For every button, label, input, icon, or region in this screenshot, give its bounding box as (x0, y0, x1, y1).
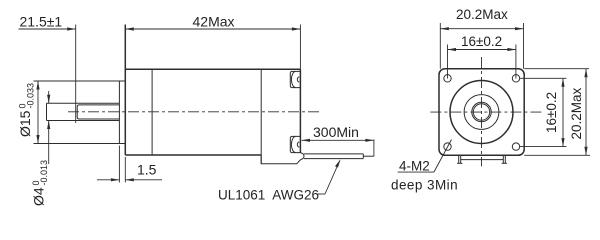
dimension 20.2Max right (vertical) (524, 69, 590, 156)
shaft circle outer (472, 102, 491, 121)
svg-text:Ø4: Ø4 (31, 187, 47, 206)
flange front face (124, 25, 126, 156)
rear cap seam (260, 69, 262, 164)
pilot circle (450, 81, 513, 144)
label UL1061 AWG26 with leader (218, 159, 341, 202)
dimension 300Min (302, 124, 374, 156)
svg-text:deep 3Min: deep 3Min (391, 177, 458, 192)
shaft circle inner (473, 104, 489, 120)
boss circle (464, 95, 499, 130)
svg-text:4-M2: 4-M2 (399, 158, 430, 173)
dimension 20.2Max top (440, 7, 523, 69)
flange square (439, 69, 524, 156)
svg-text:16±0.2: 16±0.2 (461, 34, 502, 49)
pilot boss top edge + dim ext (34, 80, 126, 82)
rear cap bottom bulge (261, 155, 301, 164)
svg-text:20.2Max: 20.2Max (456, 7, 508, 22)
svg-text:300Min: 300Min (313, 124, 359, 140)
label 4-M2 deep 3Min with leader (391, 140, 458, 193)
wire exit bump (300, 153, 304, 160)
mounting hole top-right (512, 75, 519, 82)
rear screw detail top (290, 71, 300, 87)
pilot boss front face (118, 81, 120, 144)
dimension 16±0.2 right (vertical) (520, 78, 567, 146)
rear face (299, 69, 301, 153)
flange seam (151, 69, 153, 155)
dimension Ø4 0/-0.013 (31, 91, 51, 206)
dimension Ø15 0/-0.033 (17, 81, 40, 144)
dimension 16±0.2 top (448, 34, 516, 79)
front center line horizontal (430, 111, 541, 113)
motor body bottom edge (front section) (125, 154, 261, 156)
mounting hole bottom-right (512, 143, 519, 150)
rear screw detail bottom (290, 136, 300, 152)
mounting hole top-left (444, 75, 451, 82)
svg-text:42Max: 42Max (193, 14, 235, 30)
svg-text:20.2Max: 20.2Max (569, 87, 584, 139)
shaft inner contour (77, 105, 119, 119)
shaft tip face (46, 103, 48, 120)
svg-text:-0.033: -0.033 (26, 83, 36, 109)
mounting hole bottom-left (444, 143, 451, 150)
side view center line (68, 111, 321, 113)
dimension 21.5±1 (19, 13, 76, 123)
lead wire bundle (304, 153, 363, 155)
svg-text:16±0.2: 16±0.2 (544, 92, 559, 133)
shaft top (47, 102, 120, 104)
svg-text:Ø15: Ø15 (17, 110, 33, 137)
dimension 42Max (125, 14, 300, 70)
dimension 1.5 (97, 146, 162, 183)
wire housing tab (457, 155, 507, 163)
svg-text:-0.013: -0.013 (39, 160, 49, 186)
svg-text:21.5±1: 21.5±1 (20, 13, 63, 29)
svg-text:1.5: 1.5 (137, 162, 157, 178)
shaft bottom (47, 120, 120, 122)
wire thin end (363, 155, 374, 157)
motor body top edge (125, 68, 300, 70)
front center line vertical (481, 57, 483, 166)
pilot boss bottom edge + dim ext (34, 143, 126, 145)
